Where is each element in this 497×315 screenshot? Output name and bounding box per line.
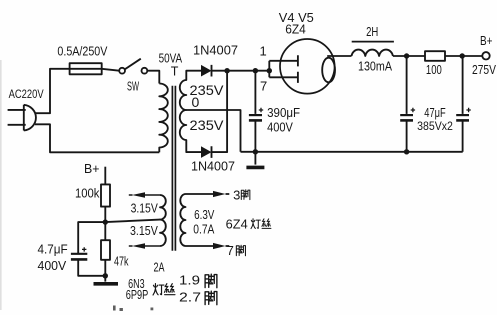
svg-text:100: 100: [426, 63, 442, 77]
svg-text:7: 7: [260, 79, 267, 94]
svg-text:AC220V: AC220V: [9, 87, 44, 101]
svg-text:B+: B+: [480, 34, 493, 48]
svg-text:3.15V: 3.15V: [130, 224, 158, 238]
svg-text:2A: 2A: [154, 261, 165, 275]
svg-text:100k: 100k: [75, 186, 100, 200]
svg-text:47μF: 47μF: [424, 106, 446, 120]
svg-text:275V: 275V: [472, 63, 497, 77]
svg-text:1N4007: 1N4007: [191, 160, 235, 174]
svg-text:47k: 47k: [114, 255, 129, 269]
svg-text:1N4007: 1N4007: [193, 44, 238, 58]
svg-text:T: T: [171, 65, 179, 79]
svg-text:235V: 235V: [190, 117, 225, 133]
svg-text:0.7A: 0.7A: [193, 222, 215, 236]
svg-text:6Z4: 6Z4: [226, 218, 248, 232]
svg-text:6Z4: 6Z4: [285, 22, 306, 37]
svg-text:7: 7: [227, 243, 234, 258]
svg-text:0: 0: [192, 94, 200, 110]
svg-text:385Vx2: 385Vx2: [417, 119, 453, 133]
svg-text:4.7μF: 4.7μF: [38, 243, 69, 257]
svg-text:130mA: 130mA: [358, 59, 392, 74]
svg-text:B+: B+: [84, 162, 100, 176]
svg-text:2.7: 2.7: [179, 290, 201, 305]
svg-text:400V: 400V: [267, 120, 293, 135]
svg-text:2H: 2H: [366, 24, 378, 39]
svg-text:390μF: 390μF: [267, 105, 300, 120]
svg-text:400V: 400V: [38, 259, 67, 273]
svg-text:6.3V: 6.3V: [194, 208, 215, 222]
svg-text:6P9P: 6P9P: [126, 288, 149, 302]
svg-text:1: 1: [260, 44, 267, 59]
svg-text:1.9: 1.9: [179, 273, 200, 288]
svg-text:SW: SW: [127, 79, 139, 93]
svg-text:3: 3: [233, 188, 240, 203]
svg-text:3.15V: 3.15V: [131, 202, 159, 216]
svg-text:0.5A/250V: 0.5A/250V: [57, 45, 108, 59]
